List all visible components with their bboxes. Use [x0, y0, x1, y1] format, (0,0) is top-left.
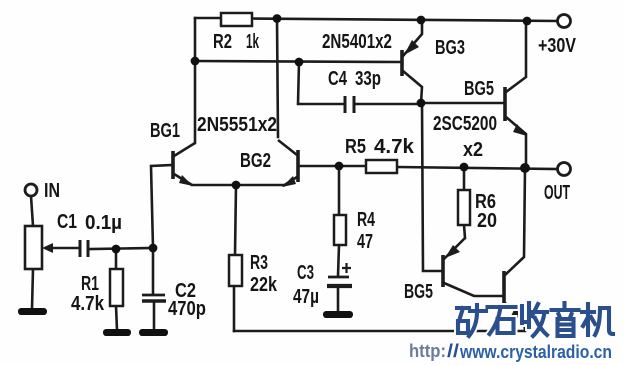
- svg-text:http:: http:: [409, 341, 446, 361]
- svg-text:C4: C4: [328, 68, 348, 90]
- capacitor C3 47u electrolytic: [327, 263, 352, 286]
- terminal OUT: [558, 163, 571, 176]
- svg-text:33p: 33p: [355, 68, 381, 90]
- ground R1: [103, 329, 131, 336]
- transistor Q BG2 2N5551: [278, 140, 298, 187]
- wire C3 bottom stem: [337, 287, 340, 312]
- svg-text:47: 47: [357, 231, 373, 253]
- svg-text:R4: R4: [357, 209, 376, 231]
- wire BG5 base from node to bar: [421, 102, 504, 105]
- svg-text:BG5: BG5: [404, 281, 433, 303]
- resistor R6 20: [458, 190, 470, 225]
- resistor R1 4.7k: [110, 269, 123, 306]
- wire pot bottom to ground: [32, 269, 33, 309]
- ground C2: [139, 329, 168, 336]
- node junction top rail R2 right: [273, 14, 282, 23]
- node junction feedback node BG2 base: [335, 162, 344, 171]
- wire BG2 base to feedback node: [299, 165, 365, 168]
- wire R6 bottom stem to PNP emitter: [464, 225, 465, 238]
- svg-text:IN: IN: [44, 180, 60, 202]
- svg-text:x2: x2: [463, 139, 483, 161]
- wire R5 right to OUT terminal: [398, 167, 557, 169]
- wire C2 top stem: [152, 248, 155, 294]
- svg-text:4.7k: 4.7k: [374, 136, 415, 158]
- wire left vertical from top rail to BG1 collector: [194, 18, 197, 143]
- transistor BG3 2N5401 VAS: [402, 21, 422, 103]
- wire R4 top stem: [338, 166, 341, 215]
- wire C4 left lead from second rail: [298, 62, 344, 104]
- node junction OUT: [520, 163, 530, 173]
- wire second rail BG3 base line: [195, 61, 400, 62]
- svg-text:0.1µ: 0.1µ: [85, 212, 122, 234]
- wire R6 top stem: [463, 167, 466, 190]
- node junction top rail BG5 collector: [523, 17, 532, 26]
- svg-text:1k: 1k: [246, 31, 260, 53]
- wire top rail right segment: [251, 19, 558, 22]
- node junction drive node BG3 collector: [417, 99, 426, 108]
- svg-text:www.crystalradio.cn: www.crystalradio.cn: [459, 342, 612, 362]
- terminal +30V: [558, 15, 571, 28]
- wire top rail left segment: [195, 17, 222, 20]
- terminal IN: [25, 184, 37, 196]
- node junction R6 top on OUT line: [460, 163, 469, 172]
- resistor R5 4.7k: [366, 160, 397, 173]
- svg-text:OUT: OUT: [544, 182, 570, 204]
- svg-text:2N5401x2: 2N5401x2: [322, 31, 392, 53]
- svg-text:R2: R2: [213, 31, 232, 53]
- capacitor C1 0.1u: [80, 240, 88, 257]
- svg-text:2SC5200: 2SC5200: [433, 113, 497, 135]
- transistor bottom output NPN 2SC5200: [504, 168, 525, 331]
- svg-text:4.7k: 4.7k: [71, 293, 105, 315]
- svg-text:C3: C3: [297, 262, 314, 284]
- wire R1 bottom stem: [116, 306, 117, 330]
- wire R4 bottom stem to C3: [338, 245, 339, 276]
- node junction second rail C4: [295, 58, 304, 67]
- node junction emitter tail: [232, 181, 241, 190]
- potentiometer input volume: [25, 226, 53, 269]
- transistor Q BG1 2N5551: [173, 143, 195, 186]
- wire pot wiper to C1 left plate: [48, 247, 78, 250]
- svg-text:R5: R5: [345, 136, 366, 158]
- svg-text:R1: R1: [81, 273, 99, 295]
- svg-text:C1: C1: [57, 211, 77, 233]
- resistor R3 22k: [229, 255, 242, 286]
- svg-text:BG1: BG1: [150, 120, 180, 142]
- transistor BG5 top output NPN 2SC5200: [505, 21, 527, 167]
- svg-text:47µ: 47µ: [293, 286, 319, 308]
- node junction C2 riser: [149, 244, 158, 253]
- svg-text:470p: 470p: [168, 298, 206, 320]
- capacitor C2 470p: [142, 295, 166, 301]
- svg-text:22k: 22k: [250, 274, 278, 296]
- wire BG2 collector vertical to +30V rail: [277, 19, 278, 137]
- wire IN terminal to pot: [31, 196, 33, 226]
- svg-text:BG2: BG2: [240, 150, 271, 172]
- wire R1 top stem: [115, 249, 118, 269]
- resistor R4 47: [334, 215, 346, 245]
- wire emitters of BG1 BG2: [192, 184, 283, 187]
- svg-text:+30V: +30V: [538, 35, 577, 57]
- svg-text:BG5: BG5: [464, 78, 494, 100]
- wire R3 bottom stem: [233, 286, 236, 331]
- ground C3: [323, 311, 353, 318]
- svg-text:BG3: BG3: [435, 37, 465, 59]
- ground pot: [18, 308, 47, 315]
- svg-text:20: 20: [477, 210, 497, 232]
- wire C2 bottom stem: [153, 302, 156, 330]
- node junction C1 R1: [112, 245, 121, 254]
- wire C4 right lead to BG3 collector node: [355, 103, 421, 106]
- capacitor C4 33p: [345, 96, 354, 113]
- wire input node to C1 right plate: [90, 248, 153, 249]
- wire drive node vertical down to bottom PNP base: [422, 103, 442, 271]
- svg-text:R3: R3: [250, 252, 268, 274]
- node junction top rail BG3 emitter: [417, 16, 426, 25]
- wire bottom rail ground return: [234, 330, 525, 333]
- wire BG1 base riser from input node: [151, 165, 172, 248]
- transistor BG5 bottom driver PNP: [443, 238, 503, 296]
- wire R3 top stem from emitter node: [235, 185, 236, 255]
- resistor R2 1k: [221, 13, 252, 26]
- svg-text:2N5551x2: 2N5551x2: [197, 114, 277, 136]
- svg-text://: //: [447, 341, 459, 361]
- node junction second rail left: [191, 57, 200, 66]
- watermark crystalradio chinese characters: [457, 303, 613, 336]
